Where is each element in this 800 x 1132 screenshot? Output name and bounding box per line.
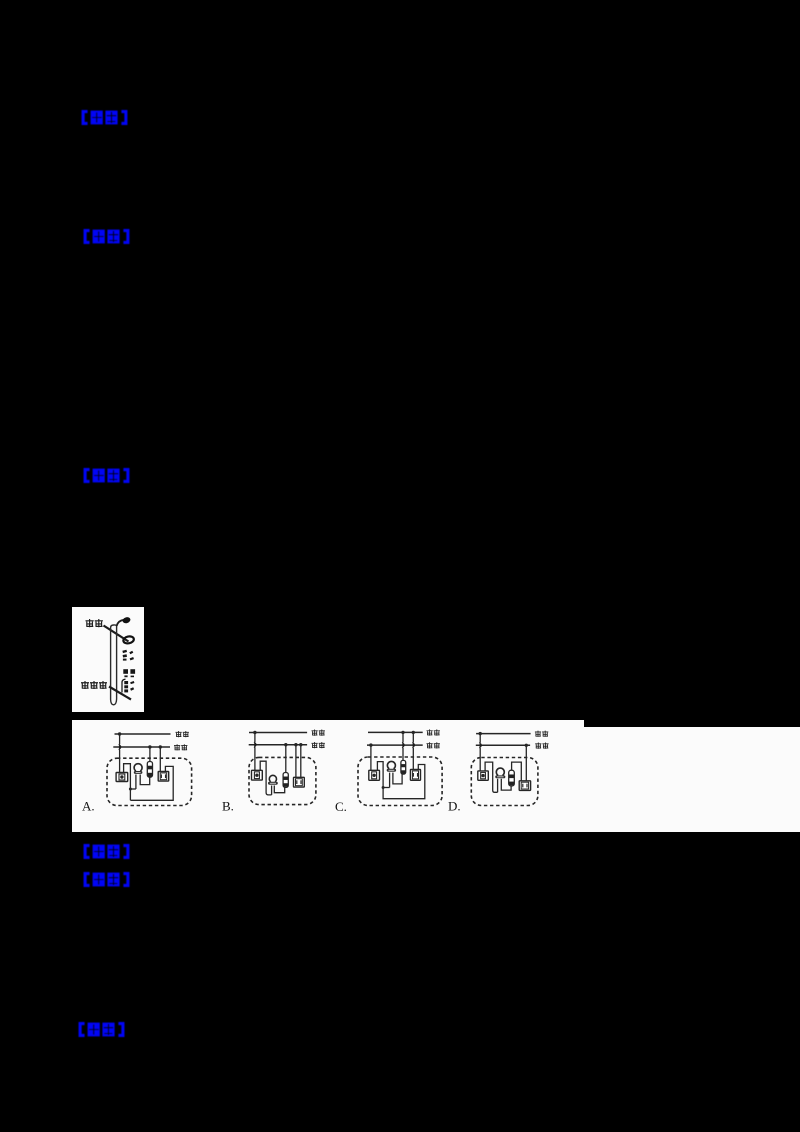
C live drop to socket2 with hop [412,732,415,769]
C live label huoxian [427,729,440,735]
right white area of image row [584,727,800,832]
D socket2 lead from neutral [525,745,527,781]
blue tag kaodian [80,110,129,125]
option B circuit [249,729,325,804]
option A circuit [107,731,192,806]
B socket2 leads to neutral [296,744,301,777]
A junction dot on live [118,732,121,735]
D lamp [496,768,504,775]
C socket 1 [369,770,380,780]
B neutral wire [249,743,307,745]
B fuse top lead [285,744,287,772]
A right loop wire [130,766,173,800]
blue tag jieda2 [82,872,131,887]
D lamp leads [498,778,512,792]
D fuse to socket2 wire [512,762,522,781]
B live drop with hop [253,732,256,770]
A neutral dots [148,745,151,748]
C dashed box [358,757,442,806]
B dashed box [249,757,316,804]
D dot on neutral [525,743,528,746]
A wire T to lamp left lead [130,788,136,790]
blue tag fenxi [82,229,131,244]
A T junction dot [129,787,132,790]
options A-D circuits band [72,720,584,832]
A fuse [147,761,152,777]
A live label huoxian [176,731,189,737]
blue tag jieda [82,468,131,483]
C neutral label lingxian [427,742,440,748]
cord to plug [117,620,124,626]
D neutral label lingxian [535,742,548,748]
B fuse [283,772,288,787]
A live drop with hop [118,734,121,773]
A live wire [115,733,171,735]
A dashed box [107,758,192,805]
leader line from switch label [104,626,129,642]
power strip body [111,625,117,705]
plug blob [122,616,131,624]
lower socket bracket [122,679,126,692]
A socket 2 [158,771,169,781]
svg-text:B.: B. [222,798,234,813]
D neutral wire [476,744,530,746]
A n-wire from socket1 over to junction [124,763,131,800]
D wire socket1 to lamp [485,762,498,792]
blue tag fenxi2 [82,844,131,859]
D socket 1 [478,770,489,779]
A neutral wire [113,746,170,748]
C live drop to fuse with hop [401,732,404,760]
A socket 1 [116,772,128,781]
C neutral wire [367,744,423,746]
A neutral label lingxian [174,744,187,750]
A lamp [134,763,142,770]
D dot on live [479,731,482,734]
A socket2 lead [159,747,161,772]
D live drop with hop [479,733,482,770]
C junction dot on wire [382,786,385,789]
switch button oval [123,635,135,644]
D live wire [476,732,530,734]
C live wire [368,731,423,733]
B socket 1 [252,770,263,780]
B neutral dots [284,743,287,746]
B live wire [249,731,307,733]
B socket 2 [294,777,305,787]
socket marks column [122,650,135,677]
B live label huoxian [312,729,325,735]
lower socket bars [124,681,134,692]
C lamp leads [390,772,403,787]
C socket 2 [410,769,420,780]
A lamp leads [136,774,150,789]
blue tag dianping [77,1022,126,1037]
option C circuit [358,729,442,805]
svg-text:D.: D. [448,798,461,813]
C dot on neutral [369,743,372,746]
B junction dot on live [253,730,256,733]
D socket 2 [519,780,530,790]
C socket1 lead from neutral [370,745,372,770]
leader line from indicator label [109,687,131,700]
B lamp leads [272,785,285,794]
A fuse top lead [149,747,151,762]
C lamp [387,761,395,768]
D live label huoxian [535,730,548,736]
svg-text:C.: C. [335,799,347,814]
C fuse [401,760,406,774]
svg-text:A.: A. [82,798,95,813]
D dashed box [471,757,538,805]
B lamp [269,775,276,781]
option D circuit [471,730,548,805]
C n-wire from socket1 down and around [377,761,424,798]
C dots on live [401,730,404,733]
C junction to lamp left lead [383,786,390,788]
B neutral label lingxian [312,742,325,748]
D fuse [509,770,515,786]
label kaiguan (switch) [86,619,103,627]
label zhishideng (indicator light) [81,681,107,689]
small illustration panel background [72,607,144,712]
B wire socket1 to lamp [260,761,271,795]
